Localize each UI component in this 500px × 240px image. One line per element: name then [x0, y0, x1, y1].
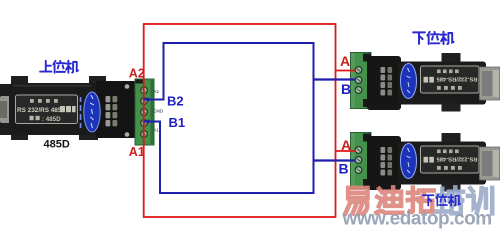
svg-text:A: A	[340, 53, 350, 69]
svg-text:RS-232/RS-485: RS-232/RS-485	[436, 75, 478, 81]
svg-text:: 485D: : 485D	[42, 116, 61, 123]
svg-text:B: B	[339, 161, 349, 177]
svg-text:485D: 485D	[44, 139, 70, 151]
svg-text:A: A	[341, 137, 351, 153]
svg-text:GND: GND	[154, 109, 164, 114]
svg-text:A1: A1	[129, 145, 145, 159]
svg-text:B: B	[341, 81, 351, 97]
svg-text:A2: A2	[129, 67, 145, 81]
svg-text:RS 232/RS 485: RS 232/RS 485	[17, 107, 62, 114]
svg-text:A1: A1	[154, 128, 160, 133]
svg-text:www.edatop.com: www.edatop.com	[342, 209, 492, 230]
svg-text:A2: A2	[154, 89, 160, 94]
svg-text:B2: B2	[167, 93, 184, 108]
svg-text:B1: B1	[169, 115, 186, 130]
